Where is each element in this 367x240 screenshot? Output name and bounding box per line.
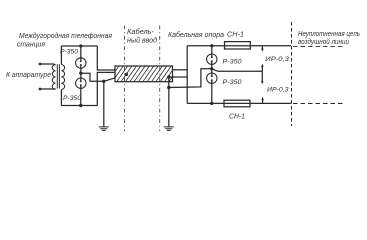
wire: midpoint stub to spark gap (212, 69, 262, 72)
wire: midpoint tap to ground node (81, 73, 104, 81)
fuse СН-1 bottom (224, 100, 250, 107)
wire: station bottom wire (61, 105, 97, 107)
ground G2 (164, 127, 174, 130)
transformer T1 right winding (61, 65, 64, 90)
wire: sheath link to arrester midpoint (169, 69, 212, 88)
cable (hatched) (108, 66, 180, 82)
svg-text:ный ввод: ный ввод (127, 37, 157, 45)
wire: transformer top to station top wire (60, 46, 62, 65)
boundary: cable entry chain line right (159, 26, 161, 132)
wire: ground 1 down lead (103, 81, 105, 127)
boundary: overhead line dashed vertical (291, 22, 293, 126)
svg-text:Неуплотненная цепь: Неуплотненная цепь (298, 31, 360, 38)
node label: Междугородная телефонная станция (17, 31, 112, 49)
svg-text:Р-350: Р-350 (60, 49, 78, 56)
svg-text:Р-350: Р-350 (223, 58, 242, 65)
arrester F2 (circle) (76, 78, 86, 88)
spark gap double arrow (middle) (261, 64, 264, 84)
transformer T1 left winding (52, 65, 55, 90)
arrester F4 (circle) (207, 73, 217, 83)
node: ground tap dot (102, 80, 105, 83)
label Р-350 (station bottom) (63, 95, 81, 102)
wire: transformer bottom to station bottom wire (60, 90, 62, 106)
transformer T1 core (57, 64, 59, 88)
ground G1 (99, 127, 109, 130)
label СН-1 bottom (229, 114, 245, 121)
wire: conductor 1 drop (97, 46, 115, 70)
svg-text:ИР-0,3: ИР-0,3 (267, 87, 289, 94)
wire: pole arrester bus (211, 46, 213, 104)
label Р-350 right top (223, 58, 242, 65)
fuse СН-1 top (225, 42, 251, 49)
node: cable sheath dot left (125, 73, 128, 76)
label СН-1 top (227, 31, 244, 38)
wire: conductor 2 riser (97, 72, 115, 105)
wire: sheath bond slant into cable (104, 74, 127, 81)
wire: bottom line wire (187, 102, 291, 104)
transformer T1 left lead top (40, 63, 56, 66)
svg-text:К аппаратуре: К аппаратуре (6, 70, 51, 79)
node: bottom junction dot (79, 104, 82, 107)
node label: К аппаратуре (6, 70, 51, 79)
spark gap arrow down (top) (261, 46, 264, 52)
wire: bottom line dashed continuation (293, 103, 345, 105)
node: pole bus mid dot (210, 67, 213, 70)
label ИР-0,3 bottom (267, 87, 289, 94)
svg-text:станция: станция (17, 40, 45, 49)
svg-text:ИР-0,3: ИР-0,3 (265, 56, 289, 63)
wire: station top wire (61, 45, 97, 47)
svg-text:Р-350: Р-350 (223, 79, 242, 86)
spark gap arrow up (bottom) (261, 97, 264, 104)
node: sheath-to-line dot (167, 86, 170, 89)
transformer T1 left terminal dot bottom (39, 88, 42, 91)
svg-text:СН-1: СН-1 (229, 114, 245, 121)
transformer T1 left terminal dot top (39, 63, 42, 66)
svg-text:воздушной линии: воздушной линии (298, 38, 349, 46)
svg-text:Кабель-: Кабель- (127, 28, 155, 36)
wire: arrester bus (station) (80, 46, 82, 106)
wire: ground 2 down lead (168, 77, 170, 127)
node: pole bus bottom dot (210, 102, 213, 105)
arrester F1 (circle) (76, 58, 86, 68)
wire: top line dashed continuation (293, 46, 345, 48)
node: top junction dot (79, 44, 82, 47)
svg-text:Р-350: Р-350 (63, 95, 81, 102)
svg-text:Междугородная телефонная: Междугородная телефонная (19, 31, 112, 40)
node label: Кабельная опора (168, 31, 224, 39)
node label: Неуплотненная цепь воздушной линии (298, 31, 360, 46)
node: cable sheath dot right (167, 75, 170, 78)
svg-text:Кабельная опора: Кабельная опора (168, 31, 224, 39)
transformer T1 left lead bottom (40, 88, 56, 90)
boundary: cable entry chain line left (124, 26, 126, 132)
wire: cable conductor 2 stub (169, 76, 187, 78)
label Р-350 (station top) (60, 49, 78, 56)
node: pole bus top dot (210, 44, 213, 47)
node: arrester midpoint dot (79, 72, 82, 75)
wire: cable conductor 1 to pole (173, 69, 188, 71)
label ИР-0,3 top (265, 56, 289, 63)
label Р-350 right bottom (223, 79, 242, 86)
wire: top line wire (187, 45, 291, 47)
node label: Кабель-ный ввод (127, 28, 157, 45)
wire: pole vertical riser (186, 46, 188, 104)
svg-text:СН-1: СН-1 (227, 31, 244, 38)
arrester F3 (circle) (207, 54, 217, 64)
